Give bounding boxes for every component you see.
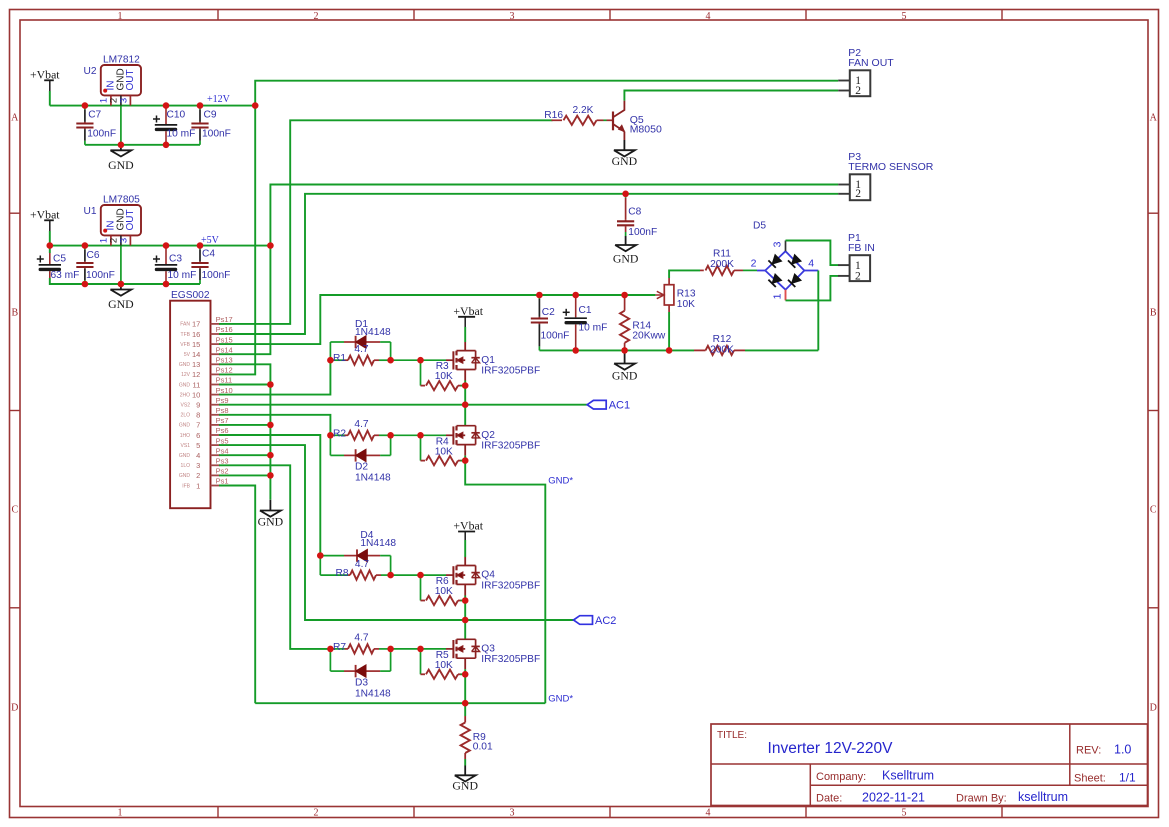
svg-text:LM7805: LM7805 bbox=[103, 195, 140, 206]
svg-text:VS1: VS1 bbox=[181, 443, 191, 449]
svg-text:2: 2 bbox=[314, 808, 319, 819]
svg-text:0.01: 0.01 bbox=[473, 742, 493, 753]
svg-text:TERMO SENSOR: TERMO SENSOR bbox=[848, 161, 934, 173]
svg-text:GND: GND bbox=[179, 423, 191, 429]
svg-text:4.7: 4.7 bbox=[354, 419, 368, 430]
svg-text:1N4148: 1N4148 bbox=[360, 538, 396, 549]
svg-text:1: 1 bbox=[118, 808, 123, 819]
svg-text:16: 16 bbox=[192, 330, 200, 339]
svg-text:R7: R7 bbox=[333, 642, 346, 653]
svg-text:C: C bbox=[1150, 505, 1157, 516]
svg-text:Drawn By:: Drawn By: bbox=[956, 793, 1007, 805]
svg-text:LM7812: LM7812 bbox=[103, 55, 140, 66]
svg-text:14: 14 bbox=[192, 350, 200, 359]
svg-text:Ps11: Ps11 bbox=[216, 376, 233, 385]
svg-text:+Vbat: +Vbat bbox=[30, 208, 60, 222]
svg-text:Ps14: Ps14 bbox=[216, 345, 233, 354]
svg-text:Ps9: Ps9 bbox=[216, 396, 229, 405]
svg-text:100nF: 100nF bbox=[541, 331, 570, 342]
svg-text:B: B bbox=[1150, 307, 1157, 318]
svg-text:GND: GND bbox=[612, 369, 638, 383]
svg-text:D5: D5 bbox=[753, 221, 766, 232]
svg-text:GND: GND bbox=[613, 252, 639, 266]
svg-text:OUT: OUT bbox=[125, 209, 136, 230]
svg-text:REV:: REV: bbox=[1076, 745, 1101, 757]
svg-text:Q2: Q2 bbox=[481, 430, 495, 441]
svg-text:U1: U1 bbox=[83, 206, 96, 217]
svg-text:2: 2 bbox=[855, 85, 861, 97]
svg-text:3: 3 bbox=[118, 98, 129, 103]
svg-text:Ps10: Ps10 bbox=[216, 386, 233, 395]
svg-text:VFB: VFB bbox=[180, 342, 190, 348]
svg-text:100nF: 100nF bbox=[87, 129, 116, 140]
svg-text:C8: C8 bbox=[628, 207, 641, 218]
svg-text:2: 2 bbox=[855, 270, 861, 282]
svg-text:10K: 10K bbox=[435, 371, 453, 382]
svg-text:A: A bbox=[11, 113, 19, 124]
svg-text:1HO: 1HO bbox=[180, 433, 190, 439]
svg-text:Q4: Q4 bbox=[481, 570, 495, 581]
svg-text:2.2K: 2.2K bbox=[573, 105, 594, 116]
svg-text:Ps8: Ps8 bbox=[216, 406, 229, 415]
svg-text:R1: R1 bbox=[333, 353, 346, 364]
svg-text:Ps17: Ps17 bbox=[216, 315, 233, 324]
svg-text:10K: 10K bbox=[435, 446, 453, 457]
svg-text:C6: C6 bbox=[87, 250, 100, 261]
svg-text:9: 9 bbox=[196, 401, 200, 410]
svg-text:3: 3 bbox=[510, 808, 515, 819]
svg-text:Ps13: Ps13 bbox=[216, 356, 233, 365]
svg-text:GND: GND bbox=[108, 158, 134, 172]
svg-text:C5: C5 bbox=[53, 254, 66, 265]
svg-text:4: 4 bbox=[196, 451, 200, 460]
svg-text:10 mF: 10 mF bbox=[168, 270, 197, 281]
svg-text:Ps5: Ps5 bbox=[216, 436, 229, 445]
svg-text:Ps3: Ps3 bbox=[216, 457, 229, 466]
svg-text:kselltrum: kselltrum bbox=[1018, 790, 1068, 804]
svg-text:GND: GND bbox=[179, 473, 191, 479]
svg-text:IRF3205PBF: IRF3205PBF bbox=[481, 441, 540, 452]
svg-text:GND: GND bbox=[612, 154, 638, 168]
svg-text:100nF: 100nF bbox=[202, 129, 231, 140]
svg-text:D2: D2 bbox=[355, 462, 368, 473]
svg-text:VS2: VS2 bbox=[181, 403, 191, 409]
svg-text:EGS002: EGS002 bbox=[171, 290, 210, 301]
svg-text:C: C bbox=[11, 505, 18, 516]
svg-text:Ps12: Ps12 bbox=[216, 366, 233, 375]
svg-text:1LO: 1LO bbox=[181, 463, 191, 469]
svg-text:5: 5 bbox=[196, 441, 200, 450]
svg-text:FAN OUT: FAN OUT bbox=[848, 57, 894, 69]
svg-text:Ps4: Ps4 bbox=[216, 446, 229, 455]
svg-text:Ps15: Ps15 bbox=[216, 335, 233, 344]
svg-text:200K: 200K bbox=[710, 344, 734, 355]
svg-text:GND*: GND* bbox=[548, 693, 573, 704]
svg-text:4.7: 4.7 bbox=[354, 344, 368, 355]
svg-text:+5V: +5V bbox=[201, 235, 220, 246]
svg-text:2: 2 bbox=[855, 188, 861, 200]
svg-text:100nF: 100nF bbox=[86, 270, 115, 281]
svg-text:OUT: OUT bbox=[125, 69, 136, 90]
svg-text:R2: R2 bbox=[333, 428, 346, 439]
svg-text:5: 5 bbox=[902, 11, 907, 22]
svg-text:IRF3205PBF: IRF3205PBF bbox=[481, 580, 540, 591]
svg-text:2LO: 2LO bbox=[181, 413, 191, 419]
svg-text:M8050: M8050 bbox=[630, 123, 662, 135]
svg-text:2: 2 bbox=[751, 258, 757, 270]
svg-text:10K: 10K bbox=[435, 660, 453, 671]
svg-text:3: 3 bbox=[772, 241, 784, 247]
svg-text:IFB: IFB bbox=[182, 483, 190, 489]
svg-text:Q1: Q1 bbox=[481, 355, 495, 366]
svg-text:4.7: 4.7 bbox=[355, 559, 369, 570]
svg-text:TFB: TFB bbox=[181, 332, 191, 338]
svg-text:FAN: FAN bbox=[180, 322, 190, 328]
svg-text:A: A bbox=[1150, 113, 1158, 124]
svg-text:C4: C4 bbox=[202, 249, 215, 260]
svg-text:AC2: AC2 bbox=[595, 615, 616, 627]
svg-text:17: 17 bbox=[192, 320, 200, 329]
svg-text:+12V: +12V bbox=[207, 94, 231, 105]
svg-text:15: 15 bbox=[192, 340, 200, 349]
svg-text:GND: GND bbox=[108, 297, 134, 311]
svg-text:100nF: 100nF bbox=[628, 227, 657, 238]
svg-text:C7: C7 bbox=[88, 110, 101, 121]
svg-text:4: 4 bbox=[808, 258, 814, 270]
svg-text:63 mF: 63 mF bbox=[51, 270, 80, 281]
svg-text:GND: GND bbox=[179, 382, 191, 388]
svg-text:GND: GND bbox=[258, 515, 284, 529]
svg-text:1: 1 bbox=[196, 481, 200, 490]
svg-text:Ps2: Ps2 bbox=[216, 467, 229, 476]
svg-text:FB IN: FB IN bbox=[848, 242, 875, 254]
svg-text:12: 12 bbox=[192, 370, 200, 379]
svg-text:1: 1 bbox=[772, 293, 784, 299]
svg-text:2: 2 bbox=[314, 11, 319, 22]
svg-text:B: B bbox=[11, 307, 18, 318]
svg-text:4: 4 bbox=[706, 808, 711, 819]
svg-text:2022-11-21: 2022-11-21 bbox=[862, 791, 925, 805]
svg-text:1N4148: 1N4148 bbox=[355, 473, 391, 484]
svg-text:Sheet:: Sheet: bbox=[1074, 773, 1106, 785]
svg-text:Ps16: Ps16 bbox=[216, 325, 233, 334]
svg-text:6: 6 bbox=[196, 431, 200, 440]
svg-text:1: 1 bbox=[118, 11, 123, 22]
svg-text:10 mF: 10 mF bbox=[579, 323, 608, 334]
svg-text:10K: 10K bbox=[677, 299, 695, 310]
svg-text:IRF3205PBF: IRF3205PBF bbox=[481, 654, 540, 665]
svg-text:1.0: 1.0 bbox=[1114, 743, 1131, 757]
svg-text:GND*: GND* bbox=[548, 476, 573, 487]
svg-text:1N4148: 1N4148 bbox=[355, 688, 391, 699]
svg-text:R13: R13 bbox=[677, 289, 696, 300]
svg-text:20Kww: 20Kww bbox=[632, 331, 665, 342]
svg-text:5: 5 bbox=[902, 808, 907, 819]
svg-text:Ps7: Ps7 bbox=[216, 416, 229, 425]
svg-text:4.7: 4.7 bbox=[354, 633, 368, 644]
svg-text:TITLE:: TITLE: bbox=[717, 730, 747, 741]
svg-text:Ps1: Ps1 bbox=[216, 477, 229, 486]
svg-text:U2: U2 bbox=[83, 66, 96, 77]
svg-text:Q3: Q3 bbox=[481, 644, 495, 655]
svg-text:GND: GND bbox=[179, 453, 191, 459]
svg-text:C3: C3 bbox=[169, 254, 182, 265]
svg-text:Inverter 12V-220V: Inverter 12V-220V bbox=[768, 740, 894, 757]
svg-text:R16: R16 bbox=[544, 110, 563, 121]
svg-text:R8: R8 bbox=[335, 568, 348, 579]
svg-text:D3: D3 bbox=[355, 677, 368, 688]
svg-text:AC1: AC1 bbox=[609, 400, 630, 412]
svg-text:C9: C9 bbox=[204, 110, 217, 121]
svg-text:10: 10 bbox=[192, 390, 200, 399]
svg-text:Date:: Date: bbox=[816, 793, 842, 805]
svg-text:D: D bbox=[1150, 703, 1157, 714]
svg-text:4: 4 bbox=[706, 11, 711, 22]
svg-text:3: 3 bbox=[118, 238, 129, 243]
svg-text:C2: C2 bbox=[542, 307, 555, 318]
svg-text:GND: GND bbox=[179, 362, 191, 368]
svg-text:1/1: 1/1 bbox=[1119, 771, 1136, 785]
svg-text:10K: 10K bbox=[435, 586, 453, 597]
svg-text:3: 3 bbox=[196, 461, 200, 470]
svg-text:Kselltrum: Kselltrum bbox=[882, 769, 934, 783]
svg-text:3: 3 bbox=[510, 11, 515, 22]
svg-text:Ps6: Ps6 bbox=[216, 426, 229, 435]
svg-text:C10: C10 bbox=[167, 110, 186, 121]
svg-text:10 mF: 10 mF bbox=[167, 129, 196, 140]
svg-text:11: 11 bbox=[193, 380, 201, 389]
svg-text:12V: 12V bbox=[181, 372, 191, 378]
svg-text:Company:: Company: bbox=[816, 771, 866, 783]
svg-text:2HO: 2HO bbox=[180, 392, 190, 398]
svg-text:7: 7 bbox=[196, 421, 200, 430]
svg-text:C1: C1 bbox=[579, 305, 592, 316]
svg-text:1N4148: 1N4148 bbox=[355, 327, 391, 338]
svg-text:5V: 5V bbox=[184, 352, 191, 358]
svg-text:GND: GND bbox=[452, 779, 478, 793]
svg-text:13: 13 bbox=[192, 360, 200, 369]
svg-text:200K: 200K bbox=[710, 259, 734, 270]
svg-text:IRF3205PBF: IRF3205PBF bbox=[481, 365, 540, 376]
svg-text:D: D bbox=[11, 703, 18, 714]
svg-text:2: 2 bbox=[196, 471, 200, 480]
svg-text:100nF: 100nF bbox=[202, 270, 231, 281]
svg-text:8: 8 bbox=[196, 411, 200, 420]
